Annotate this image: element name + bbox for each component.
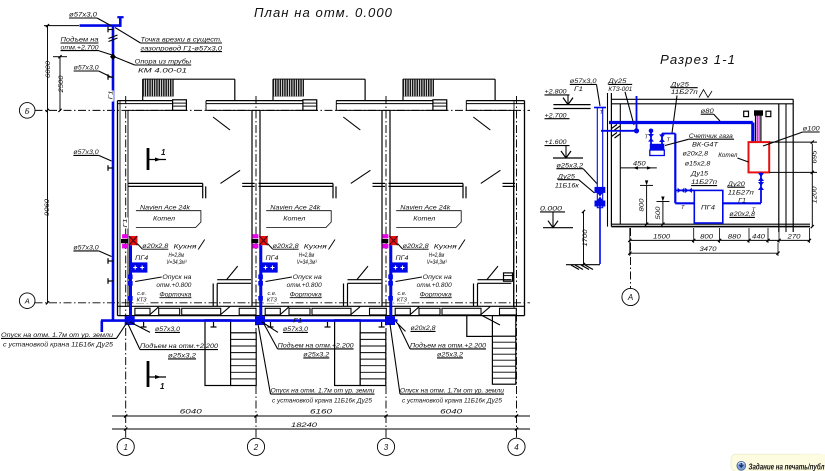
svg-text:11Б27п: 11Б27п <box>728 190 754 197</box>
svg-text:Т: Т <box>600 110 604 116</box>
svg-text:800: 800 <box>639 198 646 212</box>
svg-text:1200: 1200 <box>812 186 819 204</box>
svg-text:V=34,3м³: V=34,3м³ <box>166 259 187 266</box>
svg-text:18240: 18240 <box>291 422 317 429</box>
svg-text:отм.+0.800: отм.+0.800 <box>417 282 452 289</box>
svg-text:Подъем на отм.+2.200: Подъем на отм.+2.200 <box>140 342 218 350</box>
svg-text:План на отм. 0.000: План на отм. 0.000 <box>254 6 393 20</box>
svg-text:Подъем на отм.+2.200: Подъем на отм.+2.200 <box>278 342 354 350</box>
svg-text:Ду15: Ду15 <box>690 171 709 178</box>
svg-text:2: 2 <box>253 443 259 452</box>
svg-text:ПГ4: ПГ4 <box>701 205 715 212</box>
svg-text:4: 4 <box>514 443 519 452</box>
svg-text:3470: 3470 <box>700 246 717 253</box>
svg-text:Кухня: Кухня <box>174 244 198 251</box>
svg-text:КМ 4.00-01: КМ 4.00-01 <box>138 67 188 74</box>
svg-text:6040: 6040 <box>180 409 202 416</box>
svg-text:Котел: Котел <box>283 216 305 223</box>
svg-text:Г1: Г1 <box>574 86 583 93</box>
svg-text:отм.+0.800: отм.+0.800 <box>287 282 322 289</box>
svg-text:6040: 6040 <box>440 409 462 416</box>
svg-text:КТЗ: КТЗ <box>137 298 148 304</box>
svg-text:1: 1 <box>161 148 166 157</box>
svg-text:Г1: Г1 <box>738 198 746 205</box>
svg-text:9060: 9060 <box>44 198 51 216</box>
svg-text:V=34,3м³: V=34,3м³ <box>427 259 448 266</box>
svg-text:А: А <box>627 293 633 302</box>
svg-text:ø57х3,0: ø57х3,0 <box>69 12 97 19</box>
svg-text:440: 440 <box>752 233 765 240</box>
svg-text:с.е.: с.е. <box>268 291 277 297</box>
svg-text:ø57х3,0: ø57х3,0 <box>74 65 99 72</box>
svg-text:А: А <box>24 297 30 306</box>
svg-text:270: 270 <box>786 233 801 240</box>
svg-text:Н=2,8м: Н=2,8м <box>299 252 315 259</box>
svg-text:с.е.: с.е. <box>137 291 146 297</box>
svg-text:Разрез 1-1: Разрез 1-1 <box>660 53 736 67</box>
svg-text:Точка врезки в сущест.: Точка врезки в сущест. <box>141 37 223 44</box>
svg-text:КТЗ-001: КТЗ-001 <box>608 86 632 93</box>
svg-text:500: 500 <box>655 206 662 220</box>
svg-text:ø20х2,8: ø20х2,8 <box>683 151 709 158</box>
svg-text:Опуск на: Опуск на <box>423 274 453 281</box>
svg-text:Котел: Котел <box>413 216 435 223</box>
svg-text:Котел: Котел <box>153 216 175 223</box>
svg-text:1: 1 <box>160 382 165 391</box>
svg-text:Г1: Г1 <box>109 91 115 100</box>
svg-text:6160: 6160 <box>310 409 332 416</box>
svg-text:Подъем на отм.+2.200: Подъем на отм.+2.200 <box>410 342 486 350</box>
svg-text:1: 1 <box>123 443 127 452</box>
svg-text:Опуск на отм. 1.7м от ур. земл: Опуск на отм. 1.7м от ур. земли <box>1 332 114 339</box>
svg-text:с установкой крана 11Б16к Ду25: с установкой крана 11Б16к Ду25 <box>3 340 114 348</box>
svg-text:Б: Б <box>25 106 30 115</box>
svg-text:450: 450 <box>633 160 646 167</box>
svg-text:3: 3 <box>384 443 389 452</box>
svg-text:КТЗ: КТЗ <box>267 298 278 304</box>
svg-text:Опора из трубы: Опора из трубы <box>135 58 192 66</box>
svg-text:Подъем на: Подъем на <box>61 36 99 44</box>
svg-text:с установкой крана 11Б16к Ду25: с установкой крана 11Б16к Ду25 <box>272 397 372 405</box>
svg-text:ПГ4: ПГ4 <box>266 255 280 262</box>
svg-text:Т: Т <box>667 138 671 144</box>
svg-text:11Б27п: 11Б27п <box>671 89 698 96</box>
svg-text:Задание на печать/публ: Задание на печать/публ <box>749 461 825 471</box>
svg-text:Г1: Г1 <box>293 318 302 325</box>
svg-text:1500: 1500 <box>653 233 670 240</box>
svg-text:Н=2,8м: Н=2,8м <box>169 252 185 259</box>
svg-text:Котел: Котел <box>718 152 738 159</box>
svg-text:11Б16к: 11Б16к <box>555 183 580 190</box>
svg-text:800: 800 <box>700 233 713 240</box>
svg-text:Опуск на отм. 1.7м от ур. земл: Опуск на отм. 1.7м от ур. земли <box>271 388 376 395</box>
svg-text:Т: Т <box>645 135 649 141</box>
svg-text:Опуск на: Опуск на <box>293 274 323 281</box>
svg-text:ВК-G4T: ВК-G4T <box>692 141 719 148</box>
svg-text:КТЗ: КТЗ <box>397 298 408 304</box>
svg-text:Н=2,8м: Н=2,8м <box>429 252 445 259</box>
svg-text:2500: 2500 <box>58 75 65 94</box>
svg-text:880: 880 <box>728 233 741 240</box>
svg-text:Кухня: Кухня <box>434 244 458 251</box>
svg-text:Опуск на: Опуск на <box>162 274 192 281</box>
svg-text:Кухня: Кухня <box>304 244 328 251</box>
svg-text:Г1: Г1 <box>123 219 129 228</box>
svg-text:ø15х2,8: ø15х2,8 <box>685 161 711 168</box>
svg-text:отм.+0.800: отм.+0.800 <box>156 282 191 289</box>
svg-text:ПГ4: ПГ4 <box>135 255 149 262</box>
svg-text:1700: 1700 <box>582 229 589 247</box>
svg-text:Т: Т <box>681 205 685 211</box>
svg-text:с.е.: с.е. <box>398 291 407 297</box>
svg-text:6000: 6000 <box>45 60 52 78</box>
svg-text:с установкой крана 11Б16к Ду25: с установкой крана 11Б16к Ду25 <box>402 397 502 405</box>
svg-text:ПГ4: ПГ4 <box>396 255 410 262</box>
svg-text:695: 695 <box>812 150 819 164</box>
svg-text:Опуск на отм. 1.7м от ур. земл: Опуск на отм. 1.7м от ур. земли <box>400 388 505 395</box>
svg-text:V=34,3м³: V=34,3м³ <box>297 259 318 266</box>
